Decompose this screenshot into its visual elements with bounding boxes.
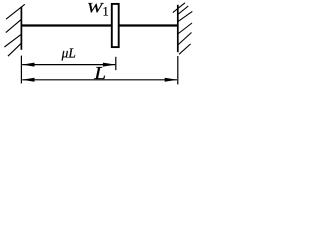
svg-text:L: L [93,63,106,83]
svg-text:μL: μL [61,45,76,60]
extension tick under plate [115,57,117,70]
arrow muL right [103,63,116,67]
arrow L right [165,78,178,82]
left wall hatch 2 [6,19,22,32]
right wall hatch 2 [178,6,189,14]
left wall line [20,7,22,50]
left wall hatch (crossing top stroke) [6,4,25,19]
left wall hatch 4 [8,43,22,56]
arrow muL left [22,63,35,67]
extension line right (below wall) [177,56,179,84]
right wall hatch 5 [178,33,192,46]
background [0,0,199,92]
left wall hatch 3 [4,34,21,47]
right wall hatch 6 [179,44,191,54]
rod (bar between walls) [21,24,177,26]
arrow L left [22,78,35,82]
load plate W1 [112,4,119,47]
right wall hatch 4 [178,23,192,34]
right wall line [177,5,179,52]
dimension line muL [22,64,115,66]
right wall hatch (crossing top stroke) [173,3,185,13]
svg-text:1: 1 [103,5,109,19]
dimension line L [22,79,177,81]
extension line left (below wall) [20,56,22,84]
right wall hatch 3 [178,11,193,21]
